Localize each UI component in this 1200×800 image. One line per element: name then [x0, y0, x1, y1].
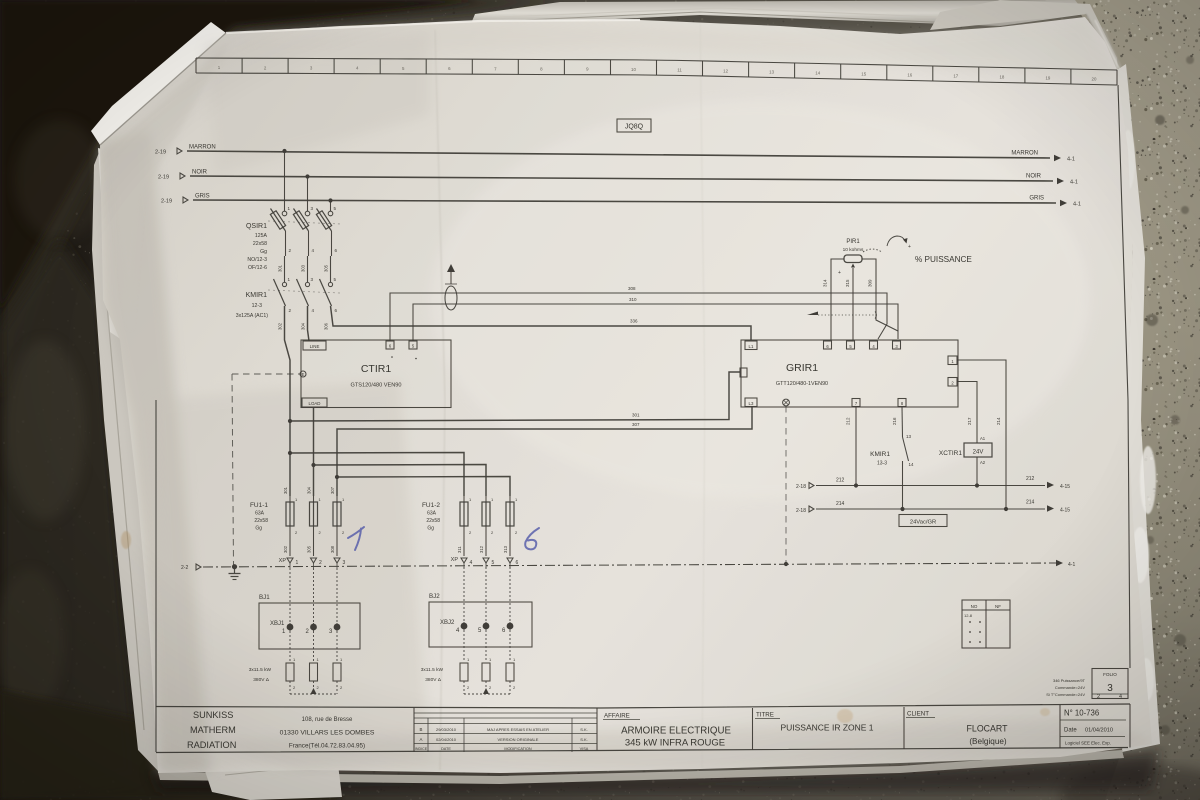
fuse bank FU1-2: [460, 502, 468, 526]
aux contact KMIR1 13-14: [901, 407, 904, 438]
handwritten blue mark 1: [348, 527, 364, 550]
wire drop phase 1: [282, 149, 286, 153]
wire to FU1-2 col6: [337, 477, 510, 497]
terminal XBJ1:1: [289, 568, 291, 623]
wire 310 from CTIR1 pin5: [413, 304, 898, 341]
wire bus NOIR: [190, 176, 1053, 181]
ground symbol: [232, 564, 237, 569]
fuse bank FU1-1: [286, 502, 294, 526]
drawing frame left: [155, 400, 157, 752]
node 307-branch: [335, 475, 339, 479]
wire phase3 336 to GRIR1 L1: [331, 306, 752, 340]
contactor KMIR1: [284, 256, 286, 282]
GRIR1 pin7: [852, 399, 860, 407]
wire 212: [855, 407, 857, 486]
wire LOAD down: [313, 408, 315, 497]
drawing frame right: [1118, 85, 1130, 668]
wire 315: [852, 268, 854, 340]
coupling dashed arrow: [807, 312, 818, 319]
measuring point symbol: [445, 286, 457, 310]
wire to FU1-2 col4: [290, 453, 464, 497]
wire drop phase 2: [305, 174, 309, 178]
revision table: [414, 712, 597, 714]
earth dashed wire: [232, 374, 300, 566]
terminal XBJ2:6: [509, 567, 511, 622]
terminal XBJ1:3: [336, 568, 338, 623]
node phase1-301: [288, 419, 292, 423]
wire bus GRIS: [193, 200, 1056, 203]
NO/NF contact table: [962, 600, 1010, 648]
fuse-switch QSIR1: [282, 211, 287, 216]
wire 314: [831, 259, 844, 340]
terminal XBJ2:4: [463, 567, 465, 622]
thyristor unit CTIR1: [301, 340, 451, 408]
paper folded corner: [91, 22, 226, 145]
ruler strip: [196, 58, 1117, 70]
wire 214 vertical: [957, 360, 1006, 509]
GRIR1 pin8: [898, 399, 906, 407]
earth dashed from GRIR1: [785, 406, 787, 563]
wire phase2 to LINE: [308, 306, 310, 341]
title block: [156, 704, 1130, 708]
node load-branch: [311, 463, 315, 467]
wire phase1 down: [285, 306, 291, 496]
wire drop phase 3: [328, 198, 332, 202]
node phase1-branch: [288, 451, 292, 455]
wire bus MARRON: [187, 151, 1050, 158]
wire 309: [862, 259, 898, 331]
rotation arrow: [887, 236, 905, 246]
folio box: [1092, 669, 1128, 699]
wire 301 to GRIR1: [290, 372, 740, 421]
sheet reference box: [617, 119, 651, 132]
handwritten blue mark 6: [525, 528, 539, 549]
wire to FU1-2 col5: [314, 465, 487, 497]
GRIR1 earth pin: [783, 399, 790, 406]
wire 307 from GRIR1 L3: [337, 406, 752, 496]
terminal XBJ1:2: [313, 568, 315, 623]
power controller GRIR1: [741, 340, 958, 407]
label 24Vac/GR: [899, 515, 947, 527]
node GRIR1-earth on XP line: [784, 562, 788, 566]
wire 308 from CTIR1 pin6: [390, 293, 887, 341]
terminal XBJ2:5: [485, 567, 487, 622]
